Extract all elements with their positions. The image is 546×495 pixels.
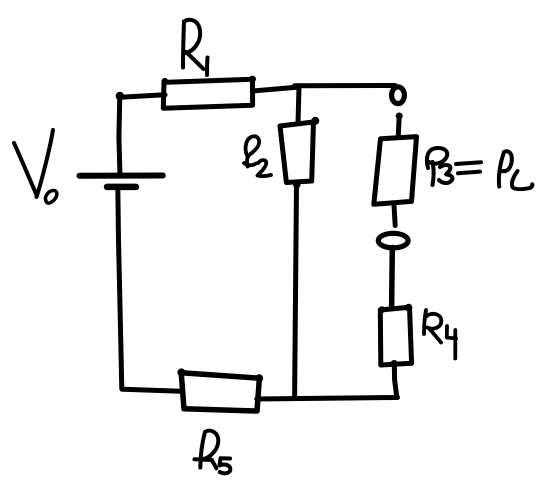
wire bottom-left horizontal [122,389,181,391]
node R5 top-right blob [255,374,263,382]
resistor R3 [374,137,417,205]
wire stub below terminal [396,113,403,138]
wire battery bottom lead [118,187,122,389]
label V0 [14,130,57,203]
wire R2 top lead [298,87,299,124]
node R4 top-right blob [405,304,413,312]
node R5 top-left blob [177,368,185,376]
terminal open circle [392,87,405,104]
wire ellipse to R4 [389,250,395,309]
node R1 top-left blob [161,78,168,85]
label R2 [244,136,271,176]
label R3 = RL [427,148,533,189]
wire R2 bottom lead [295,185,297,397]
wire battery top lead [119,97,120,177]
wire bottom-right horizontal [257,398,398,400]
resistor R5 [181,373,259,411]
node R4 bottom blob [390,360,398,368]
wire top horizontal to terminal [295,83,396,88]
resistor R1 [163,79,252,108]
resistor R2 [280,122,314,183]
terminal ellipse [378,233,408,248]
node R2 top-right blob [311,117,319,125]
resistor R4 [380,307,411,365]
wire R3 bottom stub [394,205,395,226]
label R5 [195,431,231,474]
node R2 bottom blob [293,181,301,189]
label R4 [424,310,456,359]
node R1 top-right blob [249,76,256,83]
node R4 top-left blob [379,306,386,313]
label R1 [183,20,208,75]
wire R1 to junction [253,87,297,91]
wire top-left horizontal [120,95,165,98]
node top-left junction [116,92,124,100]
wire R4 bottom lead [394,365,397,397]
battery V0 [80,176,163,187]
